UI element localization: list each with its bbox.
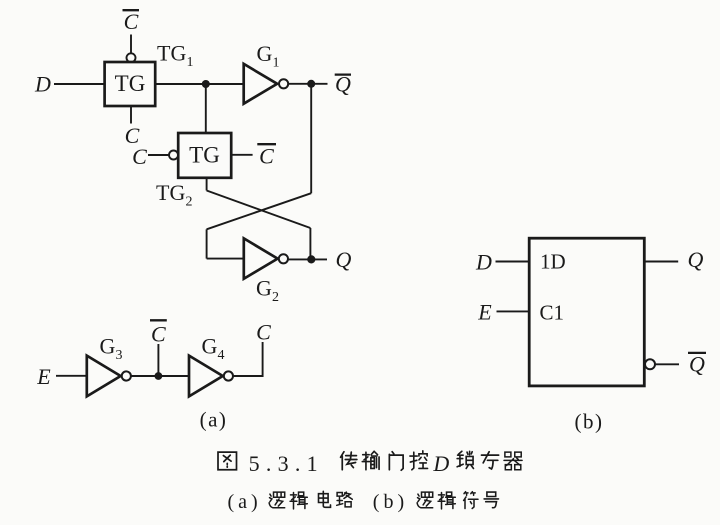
wire Q vertical (cross-couple down to Q node) xyxy=(309,228,311,259)
svg-text:D: D xyxy=(34,71,51,96)
wire G2 output to Q xyxy=(288,258,327,260)
label Q-bar xyxy=(335,72,351,97)
bubble G4 output xyxy=(224,371,233,380)
label G2 xyxy=(256,276,279,306)
node Q junction xyxy=(307,255,315,263)
label C-bar (TG1 top control) xyxy=(123,9,140,34)
svg-text:TG: TG xyxy=(156,180,185,205)
inverter G1 xyxy=(244,64,278,104)
transmission gate TG2 xyxy=(178,133,231,178)
node C-bar junction xyxy=(155,372,163,380)
svg-text:G: G xyxy=(256,276,272,301)
transmission gate TG1 xyxy=(105,62,156,106)
bubble TG1 top control xyxy=(127,53,136,62)
caption line 1: 图 5.3.1 传输门控 D 锁存器 xyxy=(218,451,522,476)
svg-text:Q: Q xyxy=(689,351,705,376)
svg-text:G: G xyxy=(257,41,273,66)
bubble Q-bar output (symbol) xyxy=(645,359,655,369)
svg-text:4: 4 xyxy=(218,348,225,363)
svg-text:G: G xyxy=(100,334,116,359)
svg-text:2: 2 xyxy=(186,195,193,210)
wire cross-couple TG2 to Q node (diagonal) xyxy=(207,191,311,229)
label C-bar (inverted clock) xyxy=(150,320,167,346)
label G3 xyxy=(100,334,123,364)
svg-text:E: E xyxy=(36,364,51,389)
label G4 xyxy=(202,334,225,364)
wire G2 input vertical xyxy=(206,229,208,258)
svg-text:C: C xyxy=(132,144,147,169)
caption line 2: (a) 逻辑电路 (b) 逻辑符号 xyxy=(228,491,499,513)
wire Q-bar vertical (to cross-coupling) xyxy=(310,84,312,193)
svg-text:G: G xyxy=(202,334,218,359)
wire G3 output to G4 input xyxy=(131,375,189,377)
svg-text:TG: TG xyxy=(157,41,186,66)
label TG2 xyxy=(156,180,193,210)
svg-text:Q: Q xyxy=(335,72,351,97)
wire C to TG2 input bubble xyxy=(148,154,169,156)
svg-text:Q: Q xyxy=(336,247,352,272)
svg-text:(b): (b) xyxy=(373,491,408,513)
svg-text:Q: Q xyxy=(688,247,704,272)
bubble G3 output xyxy=(122,371,131,380)
svg-text:(b): (b) xyxy=(575,410,604,434)
wire TG2 bottom pin xyxy=(206,178,208,191)
svg-text:1D: 1D xyxy=(540,250,566,274)
svg-text:C: C xyxy=(259,143,274,168)
wire TG2 output xyxy=(231,154,252,156)
wire E input xyxy=(56,375,87,377)
wire C-bar to TG1 control bubble xyxy=(130,35,132,54)
wire Q-bar output (symbol) xyxy=(655,363,679,365)
wire cross-couple Q-bar to G2 input (diagonal) xyxy=(207,193,312,229)
bubble TG2 input xyxy=(169,151,178,160)
svg-text:C1: C1 xyxy=(540,300,565,324)
svg-text:E: E xyxy=(477,300,492,325)
svg-text:(a): (a) xyxy=(200,408,228,432)
svg-text:1: 1 xyxy=(273,55,280,70)
wire TG1 bottom control xyxy=(130,106,132,124)
D latch symbol box xyxy=(529,238,644,386)
wire TG1 output to G1 xyxy=(155,83,243,85)
inverter G2 xyxy=(244,238,278,278)
node TG1 output junction xyxy=(202,80,210,88)
svg-text:(a): (a) xyxy=(228,491,262,513)
svg-text:C: C xyxy=(256,320,271,345)
wire Q output (symbol) xyxy=(644,261,678,263)
svg-text:1: 1 xyxy=(187,55,194,70)
wire G2 input horizontal xyxy=(207,258,244,260)
svg-text:5.3.1: 5.3.1 xyxy=(249,451,318,476)
bubble G1 output xyxy=(279,79,288,88)
svg-text:TG: TG xyxy=(115,71,146,96)
svg-text:TG: TG xyxy=(189,142,220,167)
wire G4 output up to C xyxy=(233,342,263,376)
label C-bar (TG2 output) xyxy=(257,143,276,168)
svg-text:2: 2 xyxy=(272,290,279,305)
wire G1 output to Q-bar xyxy=(288,83,328,85)
label Q-bar (symbol output) xyxy=(688,351,706,376)
svg-text:C: C xyxy=(151,322,166,347)
inverter G4 xyxy=(189,356,223,397)
svg-text:D: D xyxy=(475,249,492,274)
wire junction to TG2 top pin xyxy=(205,84,207,133)
svg-text:D: D xyxy=(432,451,449,476)
svg-text:3: 3 xyxy=(116,348,123,363)
inverter G3 xyxy=(87,356,121,397)
svg-text:C: C xyxy=(124,9,139,34)
label G1 xyxy=(257,41,280,71)
label TG1 xyxy=(157,41,194,71)
wire D input (symbol) xyxy=(496,261,530,263)
node Q-bar junction xyxy=(307,80,315,88)
wire C-bar label to junction xyxy=(157,344,159,376)
bubble G2 output xyxy=(279,254,288,263)
wire D input xyxy=(54,83,105,85)
wire E input (symbol) xyxy=(497,310,530,312)
